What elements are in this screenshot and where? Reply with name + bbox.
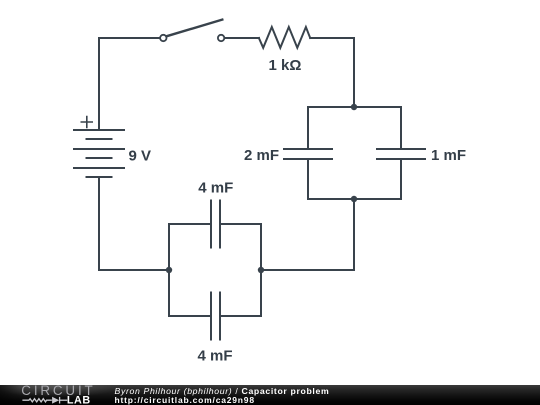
svg-text:2 mF: 2 mF bbox=[244, 147, 279, 164]
svg-text:4 mF: 4 mF bbox=[198, 179, 233, 196]
svg-text:4 mF: 4 mF bbox=[197, 347, 232, 364]
svg-text:1 mF: 1 mF bbox=[431, 147, 466, 164]
svg-text:LAB: LAB bbox=[67, 394, 91, 405]
svg-text:1 kΩ: 1 kΩ bbox=[269, 57, 302, 74]
svg-text:9 V: 9 V bbox=[129, 148, 152, 165]
